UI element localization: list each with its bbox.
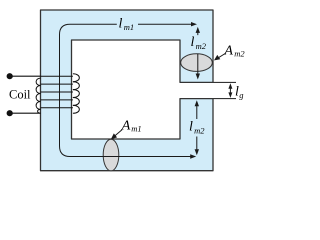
svg-text:g: g — [239, 90, 243, 100]
gap face extension line (lower) — [213, 98, 236, 100]
coil right hooks — [73, 74, 79, 114]
terminal wire top — [10, 75, 41, 77]
arrowhead lm2 lower down — [195, 149, 199, 155]
coil left hooks — [36, 78, 41, 113]
svg-text:l: l — [189, 120, 193, 135]
gap face extension line (upper) — [213, 81, 236, 83]
dimension lm2 lower shaft — [196, 104, 198, 151]
arrowhead lm2 upper up — [196, 27, 200, 33]
terminal dot bottom — [7, 110, 13, 116]
leader arrow to Am1 — [114, 130, 123, 137]
arrowhead bottom path right — [190, 154, 196, 158]
svg-text:m1: m1 — [124, 22, 134, 32]
coil turns: front lines — [41, 76, 73, 108]
core (C-shaped core with window and air gap) — [41, 10, 214, 171]
svg-text:Coil: Coil — [9, 88, 31, 102]
svg-text:l: l — [119, 16, 123, 31]
cross-section ellipse Am2 — [181, 54, 213, 72]
terminal wire bottom — [10, 112, 41, 114]
svg-text:m2: m2 — [194, 125, 205, 135]
arrowhead lm1 right — [191, 22, 197, 26]
leader arrow to Am2 — [217, 53, 227, 59]
wire: lm1 right segment — [138, 23, 192, 25]
dimension lg arrows — [229, 86, 231, 95]
mean flux path line (left leg, top arm left segment, bottom arm) — [60, 24, 192, 156]
terminal dot top — [7, 73, 13, 79]
svg-text:A: A — [223, 43, 233, 58]
arrowhead lm2 upper down — [196, 74, 200, 80]
dimension lm2 upper shaft — [197, 31, 199, 74]
cross-section ellipse Am1 — [103, 139, 119, 171]
svg-text:m2: m2 — [196, 41, 207, 51]
svg-text:A: A — [121, 118, 131, 133]
svg-text:l: l — [191, 35, 195, 50]
svg-text:m2: m2 — [234, 49, 245, 59]
svg-text:m1: m1 — [131, 124, 141, 134]
arrowhead lm2 lower up — [195, 100, 199, 106]
